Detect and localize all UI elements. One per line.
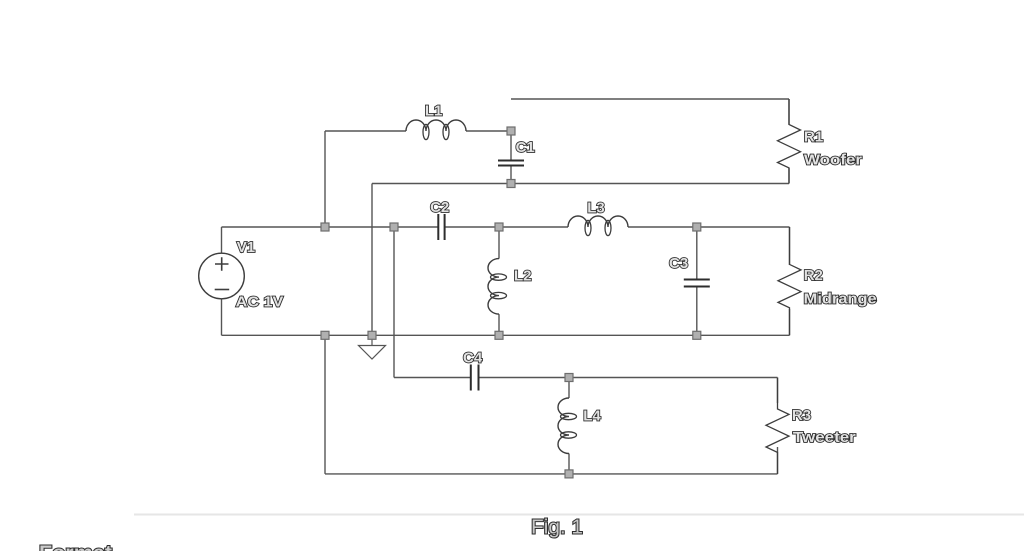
- svg-text:R2: R2: [804, 267, 823, 284]
- svg-text:C4: C4: [463, 349, 483, 366]
- svg-text:R1: R1: [804, 128, 823, 145]
- svg-text:C1: C1: [516, 139, 535, 156]
- svg-text:L2: L2: [514, 267, 532, 284]
- svg-text:C3: C3: [669, 255, 688, 272]
- svg-text:Fig. 1: Fig. 1: [531, 516, 583, 538]
- svg-text:Woofer: Woofer: [804, 152, 862, 169]
- svg-text:L1: L1: [425, 103, 443, 120]
- svg-text:C2: C2: [430, 199, 449, 216]
- svg-text:Midrange: Midrange: [804, 291, 877, 308]
- svg-text:R3: R3: [792, 407, 811, 424]
- svg-text:Tweeter: Tweeter: [793, 429, 856, 446]
- svg-text:L4: L4: [583, 408, 601, 425]
- svg-text:L3: L3: [587, 200, 605, 217]
- svg-text:Format: Format: [39, 543, 112, 551]
- svg-text:V1: V1: [237, 239, 255, 256]
- svg-text:AC 1V: AC 1V: [236, 293, 284, 310]
